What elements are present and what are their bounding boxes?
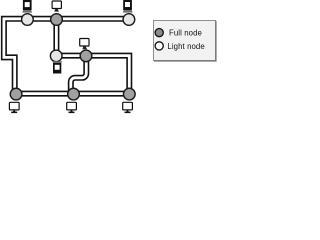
wire top bus + left Z-drop (black outer) <box>4 19 129 94</box>
monitor icon above node N5 <box>80 39 89 50</box>
tower icon above node N1 <box>22 0 32 13</box>
full node N5 <box>80 50 92 62</box>
wire middle row to N8 drop (black outer) <box>56 56 129 95</box>
legend label Full node <box>169 29 202 38</box>
light node N1 <box>22 14 34 26</box>
wire S-jog N5 to N7 (black outer) <box>71 56 87 95</box>
svg-text:Full node: Full node <box>169 29 202 38</box>
svg-text:Light node: Light node <box>167 42 204 51</box>
legend full node sample <box>155 28 163 36</box>
legend label Light node <box>167 42 204 51</box>
light node N4 <box>50 50 62 62</box>
wire N2 drop to N4 (black outer) <box>53 19 59 56</box>
tower icon below node N4 <box>52 61 62 73</box>
full node N8 <box>123 88 135 100</box>
tower icon above node N3 <box>123 0 133 13</box>
light node N3 <box>123 14 135 26</box>
monitor icon below node N7 <box>67 102 77 113</box>
wire bottom bus (black outer) <box>16 91 129 97</box>
legend box <box>154 21 216 61</box>
wire white cores <box>4 16 129 94</box>
full node N2 <box>51 14 63 26</box>
monitor icon below node N8 <box>123 102 133 113</box>
legend light node sample <box>155 42 163 50</box>
full node N7 <box>68 88 80 100</box>
monitor icon above node N2 <box>52 1 61 12</box>
monitor icon below node N6 <box>9 102 19 113</box>
full node N6 <box>10 88 22 100</box>
